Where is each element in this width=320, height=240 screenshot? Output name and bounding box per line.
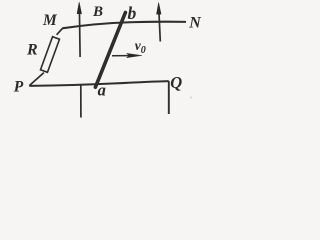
- B field arrow left shaft: [78, 9, 81, 57]
- svg-text:a: a: [98, 81, 106, 100]
- svg-text:Q: Q: [170, 73, 182, 92]
- wire resistor top lead to M corner: [57, 28, 63, 34]
- B field arrow right head: [157, 3, 162, 15]
- svg-text:B: B: [92, 4, 103, 20]
- wire vertical below a (field line lower segment): [80, 85, 82, 117]
- resistor R body: [41, 37, 60, 73]
- wire bottom rail P-Q: [29, 81, 169, 86]
- scan speck: [190, 97, 192, 99]
- svg-text:N: N: [188, 14, 202, 31]
- B field arrow right shaft: [159, 11, 160, 42]
- wire top rail M-N: [62, 22, 186, 29]
- B field arrow left head: [77, 2, 82, 14]
- velocity v0 arrow shaft: [112, 55, 129, 57]
- svg-text:P: P: [14, 78, 24, 95]
- svg-text:b: b: [128, 3, 137, 23]
- conducting rod a-b: [95, 13, 125, 88]
- wire vertical below Q: [168, 81, 170, 114]
- velocity v0 arrow head: [127, 53, 142, 58]
- svg-text:M: M: [42, 12, 58, 29]
- svg-text:R: R: [26, 42, 38, 59]
- wire resistor bottom lead to P corner: [29, 73, 44, 86]
